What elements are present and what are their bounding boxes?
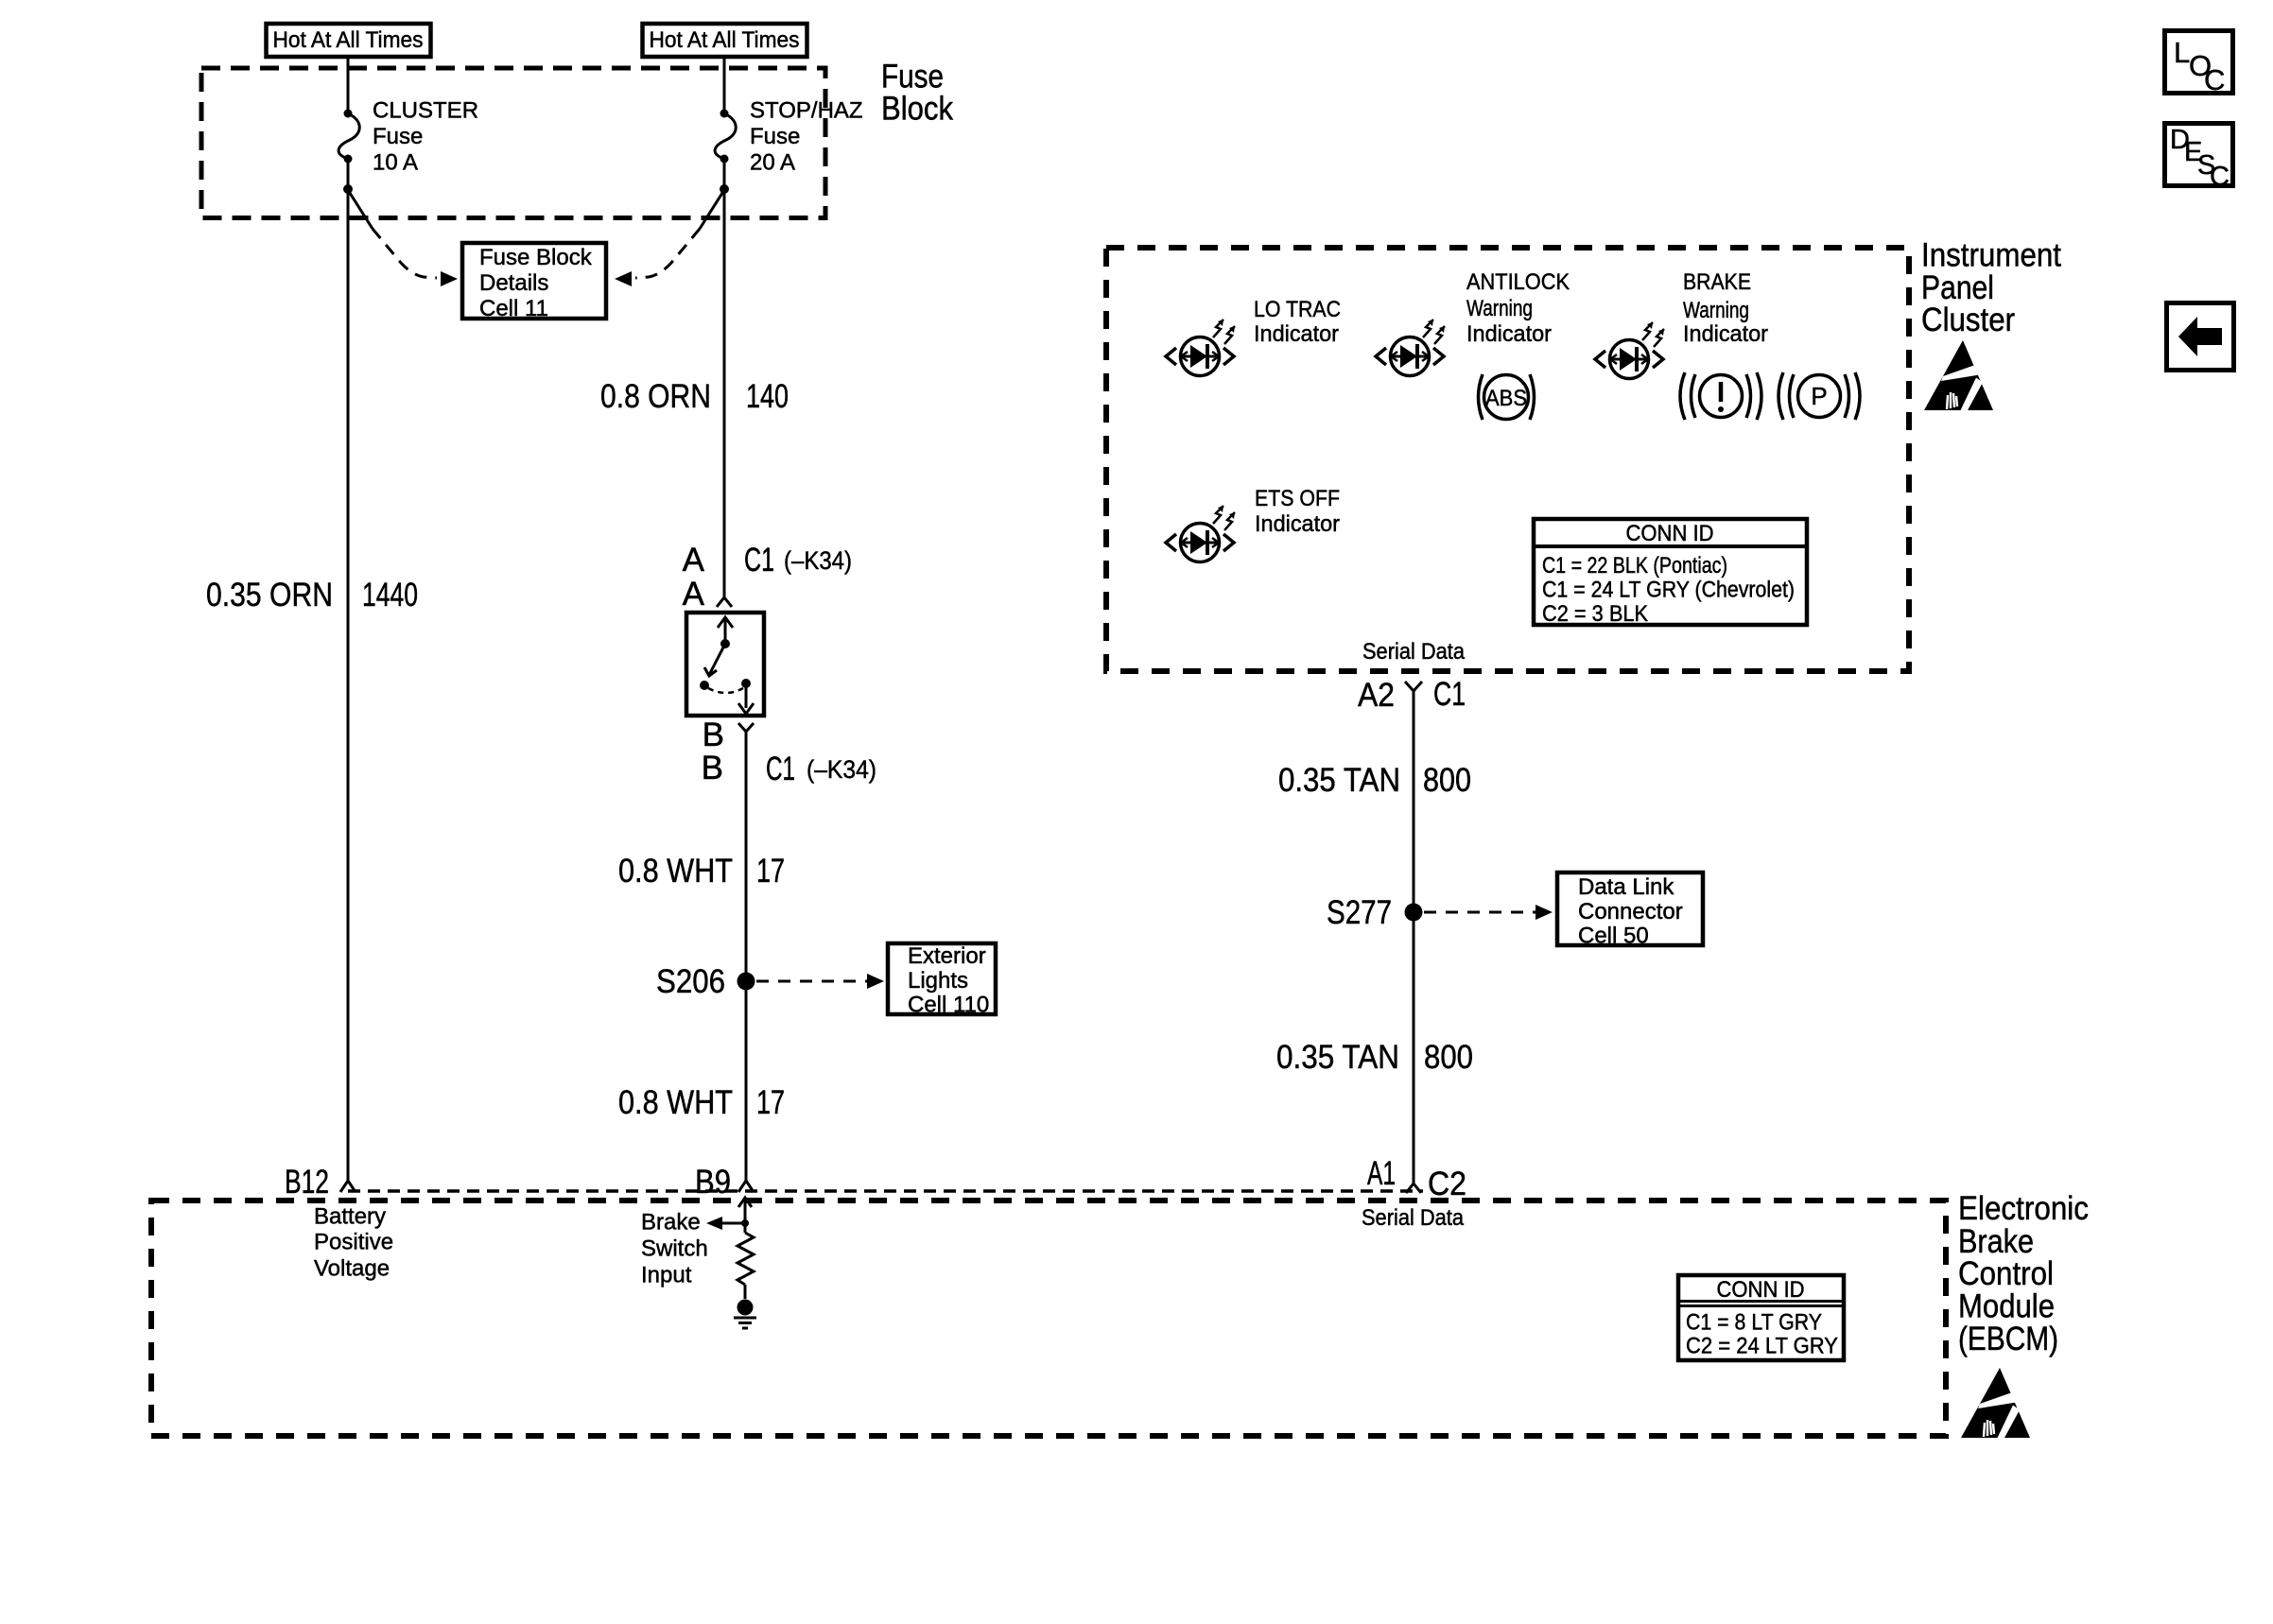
svg-text:Control: Control (1958, 1255, 2054, 1292)
svg-text:C: C (2210, 162, 2230, 192)
svg-text:ETS OFF: ETS OFF (1255, 486, 1340, 511)
svg-text:L: L (2174, 36, 2190, 69)
svg-text:S206: S206 (656, 963, 725, 1000)
svg-text:Brake: Brake (641, 1210, 701, 1235)
svg-text:C1: C1 (744, 542, 774, 579)
svg-text:C: C (2204, 63, 2225, 96)
svg-text:Cell 11: Cell 11 (479, 296, 548, 321)
svg-text:Instrument: Instrument (1921, 237, 2061, 274)
svg-text:C2 = 3 BLK: C2 = 3 BLK (1542, 601, 1648, 627)
svg-text:Connector: Connector (1578, 899, 1683, 924)
svg-text:Warning: Warning (1683, 298, 1749, 323)
svg-text:17: 17 (756, 853, 785, 890)
svg-text:Cell 110: Cell 110 (908, 993, 989, 1018)
svg-text:CONN ID: CONN ID (1626, 521, 1714, 546)
svg-text:ABS: ABS (1485, 386, 1527, 411)
svg-text:Details: Details (479, 270, 548, 296)
svg-text:LO TRAC: LO TRAC (1254, 297, 1341, 322)
svg-text:17: 17 (756, 1084, 785, 1121)
svg-text:20 A: 20 A (750, 150, 795, 176)
svg-text:Hot At All Times: Hot At All Times (650, 27, 800, 53)
svg-text:(–K34): (–K34) (784, 546, 852, 575)
svg-text:Serial Data: Serial Data (1362, 639, 1466, 665)
svg-text:Positive: Positive (314, 1230, 393, 1255)
svg-text:Battery: Battery (314, 1204, 386, 1230)
svg-text:Indicator: Indicator (1683, 321, 1768, 347)
svg-text:S277: S277 (1327, 894, 1392, 931)
svg-text:BRAKE: BRAKE (1683, 269, 1751, 295)
svg-text:800: 800 (1423, 762, 1471, 799)
svg-text:CONN ID: CONN ID (1717, 1277, 1805, 1303)
svg-text:Fuse Block: Fuse Block (479, 245, 593, 270)
svg-text:CLUSTER: CLUSTER (373, 98, 478, 124)
svg-text:Data Link: Data Link (1578, 874, 1674, 900)
svg-text:Hot At All Times: Hot At All Times (273, 27, 424, 53)
svg-text:0.35 ORN: 0.35 ORN (206, 577, 333, 613)
svg-text:B: B (702, 750, 723, 786)
svg-text:1440: 1440 (362, 577, 418, 613)
svg-text:800: 800 (1424, 1039, 1473, 1076)
svg-text:Exterior: Exterior (908, 943, 986, 969)
svg-text:A2: A2 (1358, 677, 1395, 714)
svg-text:Cluster: Cluster (1921, 302, 2015, 338)
svg-text:Input: Input (641, 1263, 692, 1288)
svg-text:0.8 ORN: 0.8 ORN (600, 378, 711, 415)
svg-text:Module: Module (1958, 1288, 2055, 1325)
svg-text:Indicator: Indicator (1255, 511, 1340, 537)
svg-text:P: P (1811, 382, 1827, 410)
svg-text:Lights: Lights (908, 968, 968, 993)
svg-text:0.8 WHT: 0.8 WHT (618, 1084, 733, 1121)
svg-text:Cell 50: Cell 50 (1578, 924, 1649, 949)
svg-text:Fuse: Fuse (373, 124, 423, 149)
svg-text:B9: B9 (695, 1164, 731, 1201)
svg-text:(–K34): (–K34) (807, 755, 876, 784)
svg-text:Warning: Warning (1466, 296, 1533, 321)
svg-text:0.35 TAN: 0.35 TAN (1276, 1039, 1399, 1076)
svg-text:C1: C1 (766, 751, 795, 787)
svg-text:C1 = 8 LT GRY: C1 = 8 LT GRY (1686, 1310, 1822, 1336)
svg-text:Electronic: Electronic (1958, 1190, 2089, 1227)
svg-text:10 A: 10 A (373, 150, 418, 176)
svg-text:Voltage: Voltage (314, 1256, 390, 1282)
svg-text:C1 = 24 LT GRY (Chevrolet): C1 = 24 LT GRY (Chevrolet) (1542, 578, 1795, 603)
svg-text:A1: A1 (1367, 1155, 1396, 1192)
svg-text:(EBCM): (EBCM) (1958, 1321, 2058, 1357)
svg-text:A: A (683, 576, 705, 613)
svg-text:C1: C1 (1433, 676, 1466, 713)
svg-text:0.35 TAN: 0.35 TAN (1278, 762, 1400, 799)
svg-text:Block: Block (881, 91, 953, 128)
svg-text:ANTILOCK: ANTILOCK (1466, 269, 1570, 295)
svg-text:Fuse: Fuse (750, 124, 800, 149)
svg-text:B: B (703, 717, 724, 753)
svg-text:C1 = 22 BLK (Pontiac): C1 = 22 BLK (Pontiac) (1542, 553, 1727, 579)
svg-text:Indicator: Indicator (1254, 321, 1339, 347)
svg-text:0.8 WHT: 0.8 WHT (618, 853, 733, 890)
svg-text:STOP/HAZ: STOP/HAZ (750, 98, 863, 124)
svg-text:Serial Data: Serial Data (1362, 1205, 1465, 1231)
svg-text:C2: C2 (1428, 1166, 1466, 1202)
svg-text:B12: B12 (285, 1164, 329, 1201)
svg-text:C2 = 24 LT GRY: C2 = 24 LT GRY (1686, 1334, 1838, 1359)
svg-text:A: A (683, 542, 705, 579)
svg-text:Switch: Switch (641, 1236, 708, 1262)
svg-text:140: 140 (746, 378, 789, 415)
svg-text:Indicator: Indicator (1466, 321, 1552, 347)
